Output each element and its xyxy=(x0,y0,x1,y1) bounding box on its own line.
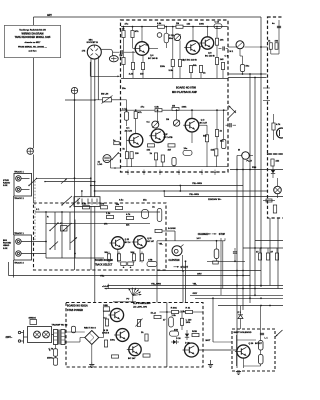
capacitor C41 xyxy=(278,20,280,36)
transistor Q73 xyxy=(185,343,199,357)
switch S1a xyxy=(29,179,37,186)
resistor R3 xyxy=(122,31,125,38)
arrow change xyxy=(207,233,211,235)
trimmer R73 xyxy=(137,320,140,327)
svg-text:D 26: D 26 xyxy=(185,343,190,345)
board outline TRACK SELECT dashed box xyxy=(34,203,167,270)
jack J4 head track2 xyxy=(16,251,21,256)
wire top rail xyxy=(121,26,158,28)
level meter M2 xyxy=(236,41,244,49)
switch S3b xyxy=(64,223,72,231)
wire socket screen drop xyxy=(90,58,92,196)
resistor R58a on track box edge xyxy=(121,262,127,266)
wire track sel verticals xyxy=(45,212,47,258)
wire jack J2 out xyxy=(21,188,29,190)
svg-text:R 30A: R 30A xyxy=(171,307,178,310)
board outline output amp dashed box xyxy=(268,17,286,154)
resistor R31 xyxy=(154,153,157,160)
svg-text:0.5u: 0.5u xyxy=(119,200,124,202)
wire solenoid links xyxy=(237,339,257,341)
switch arrow in track box xyxy=(70,237,77,243)
svg-text:TRACK 2: TRACK 2 xyxy=(14,197,24,200)
wire x255 drop xyxy=(254,78,256,296)
wire GRY supply from title area to right side xyxy=(33,17,35,25)
arrow on jack wire xyxy=(61,179,67,184)
trimmer RT2 xyxy=(152,121,159,128)
wire switch to transformer xyxy=(52,334,54,336)
capacitor C73 xyxy=(169,317,174,327)
svg-text:OSB: OSB xyxy=(103,305,108,307)
svg-text:YEL: YEL xyxy=(159,244,164,246)
wire y200 link xyxy=(263,200,275,202)
wire fan base xyxy=(113,301,136,303)
svg-text:BOARD NO 8788: BOARD NO 8788 xyxy=(176,86,196,89)
capacitor C21 xyxy=(124,112,128,121)
svg-text:TRACK 1: TRACK 1 xyxy=(14,232,24,235)
wire y305.5 rail xyxy=(218,305,283,307)
wire y298 rail xyxy=(195,297,283,299)
transformer T1 core xyxy=(58,330,60,345)
svg-text:YEL-GRN: YEL-GRN xyxy=(151,284,161,286)
board outline shift solenoid dashed box xyxy=(232,329,275,371)
svg-text:WIRING DIAGRAM: WIRING DIAGRAM xyxy=(22,32,44,35)
transistor Q6 xyxy=(135,42,149,56)
wire lower rail y110 xyxy=(121,109,155,111)
wire MOT drop xyxy=(212,298,214,342)
head jack box xyxy=(14,235,32,260)
resistor R13 xyxy=(215,58,218,65)
svg-text:TRACK 1: TRACK 1 xyxy=(14,171,24,174)
resistor R51 xyxy=(213,261,219,264)
svg-text:220k: 220k xyxy=(160,66,166,68)
svg-text:FROM SERIAL NO. 200001 —: FROM SERIAL NO. 200001 — xyxy=(18,45,48,48)
resistor R10 xyxy=(189,66,192,73)
resistor R67 xyxy=(117,254,120,261)
wire rail y212 xyxy=(35,211,160,213)
wire jack J4 to board xyxy=(21,253,46,255)
svg-text:S.W.: S.W. xyxy=(3,185,8,187)
svg-text:AC 126: AC 126 xyxy=(125,129,133,132)
wire chassis E2 drop xyxy=(74,94,76,270)
resistor R69 xyxy=(140,254,143,261)
svg-text:and thru: and thru xyxy=(29,50,38,53)
capacitor C31 xyxy=(240,65,244,72)
wire x243 drop xyxy=(242,159,244,311)
microphone jack M1 xyxy=(103,155,111,163)
wire y240 rail xyxy=(255,240,283,242)
svg-text:47u: 47u xyxy=(141,106,145,109)
rectifier bridge D70 xyxy=(85,331,99,345)
trimmer RT1 xyxy=(174,34,181,41)
board pin stubs on bottom edge xyxy=(127,172,129,174)
svg-text:BC 149 B: BC 149 B xyxy=(205,55,215,58)
capacitor C22 xyxy=(183,150,192,155)
wire y77.5 link xyxy=(228,77,267,79)
chassis socket E1 xyxy=(27,148,33,154)
capacitor C61 xyxy=(157,209,162,222)
svg-text:MOT: MOT xyxy=(206,340,212,342)
transformer T1 primary xyxy=(54,330,58,345)
resistor R70 xyxy=(105,319,108,326)
resistor R6 xyxy=(131,63,134,70)
resistor R44 xyxy=(271,159,274,166)
capacitor C63 xyxy=(142,210,149,219)
wire y261 rail xyxy=(207,260,245,262)
svg-text:B 19: B 19 xyxy=(104,330,109,332)
junction dots lower rail xyxy=(126,109,128,111)
resistor R46 xyxy=(273,205,276,213)
svg-text:Q 5 BC 149 B: Q 5 BC 149 B xyxy=(183,58,197,61)
wire upper stubs to rail xyxy=(123,65,125,79)
svg-text:START: START xyxy=(181,266,189,269)
wire fan to dial lamps xyxy=(129,288,133,295)
svg-text:C 70: C 70 xyxy=(49,349,54,351)
resistor R23 xyxy=(134,112,137,119)
resistor R61 xyxy=(83,206,90,209)
resistor R1 xyxy=(158,25,165,28)
svg-text:47u: 47u xyxy=(125,22,129,25)
wire lower channel links xyxy=(121,99,127,101)
capacitor C52 xyxy=(233,251,237,253)
wire into output board xyxy=(261,46,268,48)
transformer T1 secondary xyxy=(61,330,65,345)
svg-text:1M: 1M xyxy=(172,106,175,108)
wire x182 drop xyxy=(181,312,183,318)
svg-text:C 1B: C 1B xyxy=(120,29,125,31)
resistor R90 xyxy=(258,253,261,260)
svg-text:C7B: C7B xyxy=(148,259,153,261)
wire chassis socket down to track select board xyxy=(33,155,35,204)
solenoid coil L1 xyxy=(259,341,264,351)
svg-text:PLAY: PLAY xyxy=(247,160,253,163)
switch link dashed xyxy=(34,181,36,240)
svg-text:50u: 50u xyxy=(246,66,250,68)
switch S2 record-play xyxy=(62,196,72,205)
title block xyxy=(5,25,61,57)
svg-text:LOG: LOG xyxy=(98,164,103,166)
transistor Q5 xyxy=(186,41,200,55)
board outline MIC PLAYBACK AMP dashed box xyxy=(121,20,229,172)
wire Q22 Q23 links xyxy=(117,249,119,262)
resistor R78 R31 xyxy=(186,310,193,313)
resistor R28 xyxy=(215,149,218,156)
resistor R58b on track box edge xyxy=(128,262,134,266)
diode D72 xyxy=(171,341,173,343)
fuse holder xyxy=(30,320,37,325)
resistor R75 xyxy=(143,354,150,357)
wire lower stubs xyxy=(126,159,128,167)
transistor Q26 xyxy=(237,345,250,358)
transistor Q22 xyxy=(112,237,125,250)
wire y169.5 rail xyxy=(230,169,283,171)
connector CN1 xyxy=(109,56,118,62)
resistor R2 xyxy=(176,25,183,28)
svg-text:100k: 100k xyxy=(182,107,188,109)
resistor R77 R30A xyxy=(172,310,179,313)
svg-text:GRY: GRY xyxy=(193,293,198,295)
wire mic switch to board xyxy=(118,152,121,154)
resistor R66 xyxy=(107,254,110,261)
trimmer RT3 xyxy=(173,120,179,126)
resistor R9 xyxy=(178,60,181,67)
svg-text:RADIO: RADIO xyxy=(3,182,10,185)
diode D55 xyxy=(238,315,243,319)
svg-text:YEL: YEL xyxy=(193,283,198,285)
wire R43 links xyxy=(273,114,275,123)
svg-text:YEL: YEL xyxy=(100,275,105,277)
resistor R30b xyxy=(130,152,133,159)
wire upper bottom rail xyxy=(121,77,228,79)
svg-text:STOP: STOP xyxy=(219,234,226,236)
svg-text:14 V: 14 V xyxy=(197,237,202,240)
resistor R11 xyxy=(199,66,202,73)
wire jack J1 to switch xyxy=(21,177,29,179)
wire x260 into solenoid xyxy=(260,306,262,341)
svg-text:BC 149 B: BC 149 B xyxy=(148,57,158,60)
svg-text:25u: 25u xyxy=(122,88,126,90)
resistor R7 xyxy=(141,63,144,70)
wire x185.5 drop xyxy=(185,261,187,302)
capacitor C70 xyxy=(72,326,76,333)
svg-text:5M LIN: 5M LIN xyxy=(101,94,109,96)
resistor R8 xyxy=(171,60,174,67)
wire vertical x166.9 xyxy=(166,303,168,368)
wire long y185.5 to right side xyxy=(91,185,243,187)
wire mic elbow xyxy=(109,160,111,168)
wire long y196.5 right xyxy=(164,196,283,198)
resistor R22 xyxy=(172,107,179,110)
wire head block feeds xyxy=(90,178,92,196)
svg-text:BC 147: BC 147 xyxy=(200,122,208,125)
lamp LP1 xyxy=(274,186,282,194)
wire x250 drop xyxy=(249,74,251,303)
wire bus power feed xyxy=(94,206,96,302)
svg-text:BOARD NO 8261A: BOARD NO 8261A xyxy=(67,304,88,307)
resistor R91 xyxy=(266,253,269,260)
transistor Q70 xyxy=(110,308,123,321)
resistor R26 xyxy=(205,135,208,142)
svg-text:ROB: ROB xyxy=(192,331,197,333)
diode D42 xyxy=(272,166,274,170)
wire x270 drop xyxy=(269,218,271,286)
wire left edge links xyxy=(12,196,14,235)
resistor R24 xyxy=(148,144,155,147)
wire x221 pair drop xyxy=(220,238,222,295)
svg-text:25u: 25u xyxy=(220,141,224,143)
resistor R59 xyxy=(155,229,162,232)
svg-text:TRANSF NO 52: TRANSF NO 52 xyxy=(52,324,69,327)
arrow record direction xyxy=(229,111,237,119)
capacitor C2A on top rail xyxy=(214,24,222,29)
transistor Q8 xyxy=(201,37,213,49)
wire jack J3 to board xyxy=(21,241,46,243)
svg-text:R 31: R 31 xyxy=(186,308,191,310)
wire r90 stubs xyxy=(259,248,261,253)
junction dots upper rail xyxy=(123,26,125,28)
svg-text:CAPSTAN: CAPSTAN xyxy=(169,259,180,262)
svg-text:D 26: D 26 xyxy=(176,338,181,340)
wire stub y88 xyxy=(263,87,270,89)
resistor R14 xyxy=(221,63,224,70)
head assembly block xyxy=(74,197,100,207)
svg-text:SW404: SW404 xyxy=(29,317,37,320)
resistor R74 xyxy=(145,334,148,341)
resistor R83 on board edge xyxy=(103,307,109,312)
resistor R32 xyxy=(161,155,164,162)
svg-text:TRACK 2: TRACK 2 xyxy=(14,261,24,264)
wire caps link xyxy=(55,345,57,349)
svg-text:TRACK SELECT: TRACK SELECT xyxy=(95,263,113,266)
potentiometer R30 5M LIN xyxy=(103,98,112,102)
svg-text:RECT NO 8: RECT NO 8 xyxy=(84,328,96,330)
capacitor C3 coupling xyxy=(120,50,122,54)
wire meter link xyxy=(239,49,241,56)
svg-text:22,5 STABILIZING: 22,5 STABILIZING xyxy=(133,302,151,305)
transistor Q23 xyxy=(134,236,147,249)
wire right vertical drop from GRY bus xyxy=(260,17,262,287)
wire mic feed arrow xyxy=(89,62,91,76)
chassis socket E2 xyxy=(71,87,77,93)
svg-text:HEAD: HEAD xyxy=(3,244,10,247)
wire amp out to meter xyxy=(228,46,237,48)
ground G3 xyxy=(236,371,241,373)
resistor R68 xyxy=(132,254,135,261)
svg-text:BC 147: BC 147 xyxy=(128,357,136,360)
capacitor C25 1u xyxy=(114,142,120,145)
capacitor C2B xyxy=(164,33,168,43)
capacitor C71 xyxy=(53,349,57,357)
transistor Q9 clipped at edge xyxy=(277,128,287,138)
resistor R4 xyxy=(131,31,134,38)
svg-text:1M: 1M xyxy=(166,119,169,121)
svg-text:C 2A: C 2A xyxy=(215,21,220,24)
capacitor C23 xyxy=(222,140,226,149)
resistor R81 ROB xyxy=(192,333,199,336)
capacitor C2 electrolytic xyxy=(157,33,162,38)
capacitor C74 xyxy=(170,331,179,336)
wire x157 drop xyxy=(156,241,158,303)
wire y275.5 GRY rail xyxy=(9,275,251,277)
svg-text:BC 147B: BC 147B xyxy=(164,136,173,139)
wire y181.6 xyxy=(45,181,95,183)
wire Q73 to solenoid board xyxy=(199,349,237,351)
wire y270.5 rail xyxy=(157,270,261,272)
transistor Q72 xyxy=(129,343,141,355)
wire bridge out xyxy=(99,337,104,339)
resistor R25 xyxy=(168,144,175,147)
wire y285.5 rail xyxy=(108,285,283,287)
svg-text:MIC PLAYBACK AMP: MIC PLAYBACK AMP xyxy=(172,91,197,94)
resistor R80 xyxy=(180,318,183,325)
jack J2 track2 xyxy=(16,187,21,192)
svg-text:Q 23: Q 23 xyxy=(147,238,151,240)
solenoid coil L5 xyxy=(214,249,219,259)
wire y74 link xyxy=(228,73,267,75)
wire x278 drop xyxy=(277,218,279,289)
wire mic socket to connector xyxy=(101,48,110,50)
svg-text:BC 14: BC 14 xyxy=(125,241,131,244)
diode D71 xyxy=(186,330,188,334)
arrow start xyxy=(174,266,180,268)
svg-text:20%: 20% xyxy=(186,322,190,324)
svg-text:1M: 1M xyxy=(119,55,122,57)
svg-text:L32 +20% -10%: L32 +20% -10% xyxy=(133,306,147,308)
svg-text:Tandbergs Radiofabrikk A/S: Tandbergs Radiofabrikk A/S xyxy=(19,28,46,31)
wire riser x164 xyxy=(163,191,165,197)
wire motor links xyxy=(237,155,242,157)
wire x237 drop xyxy=(236,156,238,369)
svg-text:CHANGE: CHANGE xyxy=(198,233,208,236)
wire rail y312 xyxy=(160,311,172,313)
wire screen rail xyxy=(65,99,95,101)
wire track select exit right xyxy=(166,230,175,232)
capstan motor cam xyxy=(172,246,182,256)
arrow stop xyxy=(212,233,216,235)
jack box radio input xyxy=(14,173,32,196)
svg-text:115/230V 50~: 115/230V 50~ xyxy=(208,199,222,201)
wire from title block down to chassis jack xyxy=(33,58,35,148)
resistor R27 xyxy=(215,130,218,137)
resistor R72 xyxy=(112,355,119,358)
wire output board top links xyxy=(270,49,272,54)
svg-text:1784 B: 1784 B xyxy=(102,332,109,335)
wire diode drop xyxy=(240,306,242,315)
wire long y191 mid xyxy=(95,190,268,192)
mains plug P1 xyxy=(18,331,20,333)
switch S3a xyxy=(50,223,58,231)
wire pot to amp board xyxy=(95,99,103,101)
wire upper channel links xyxy=(123,27,125,31)
arrow play direction xyxy=(229,106,237,114)
ground G2 xyxy=(91,362,93,364)
solenoid coil L2 xyxy=(259,355,264,365)
svg-text:SOCKET B: SOCKET B xyxy=(87,42,99,44)
board outline output stage dashed box xyxy=(268,154,286,218)
switch S4 mic xyxy=(112,153,118,160)
resistor R42 xyxy=(275,43,278,50)
transistor Q3 xyxy=(185,118,199,132)
capacitor C72 xyxy=(53,358,57,366)
resistor R63 xyxy=(116,206,123,209)
DIN socket MIC B xyxy=(87,45,101,59)
board outline STAB POWER dashed box xyxy=(66,303,203,368)
svg-text:SHIFT SOLENOID: SHIFT SOLENOID xyxy=(234,332,252,334)
resistor R76 xyxy=(154,315,161,318)
jack J1 track1 xyxy=(16,176,21,181)
wire y295 rail xyxy=(190,294,283,296)
svg-text:S-103N: S-103N xyxy=(168,228,176,230)
svg-text:STAB POWER: STAB POWER xyxy=(67,309,83,312)
wire x183 drop xyxy=(182,271,184,303)
svg-text:TAPE RECORDER MODEL 1325: TAPE RECORDER MODEL 1325 xyxy=(15,36,51,39)
wire change-stop row xyxy=(157,240,225,242)
wire capstan drop xyxy=(182,255,184,271)
wire y248 rail right xyxy=(243,247,283,249)
wire bridge down xyxy=(91,345,93,363)
resistor R92 xyxy=(275,253,278,260)
transistor Q71 xyxy=(116,329,129,342)
capacitor C7B xyxy=(147,261,157,266)
svg-text:S.W.: S.W. xyxy=(3,248,8,250)
capacitor C24 xyxy=(172,158,176,166)
wire cap to rail xyxy=(242,72,244,75)
ground G1 xyxy=(210,360,212,364)
resistor R62 xyxy=(101,206,108,209)
mains switch box SW404 xyxy=(28,327,52,343)
svg-text:Q 22: Q 22 xyxy=(125,239,129,241)
wire transformer out top xyxy=(65,331,85,333)
wire motor links xyxy=(216,241,218,249)
